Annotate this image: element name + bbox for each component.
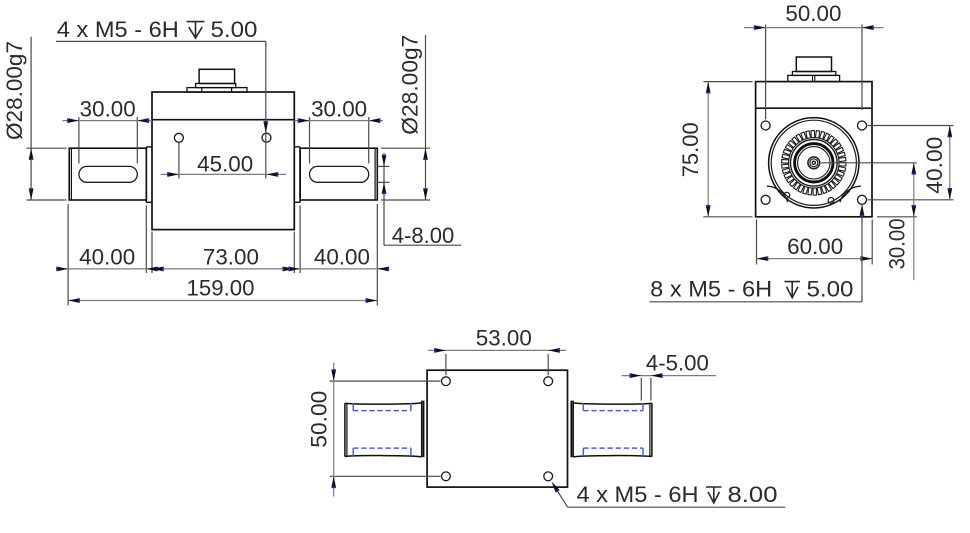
svg-text:73.00: 73.00 <box>203 244 259 269</box>
right dim note 8xM5-6H depth 5.00 <box>650 204 865 301</box>
front view: body top-plate parting line <box>152 119 294 121</box>
svg-text:8.00: 8.00 <box>728 482 778 507</box>
right view: connector mid flange <box>792 72 835 76</box>
bottom view: left shaft <box>345 403 422 457</box>
right view: body parting line <box>756 107 872 109</box>
front dim 30.00 right <box>294 97 383 164</box>
right view: inner ring 2 <box>798 147 830 179</box>
bottom view: right shaft collar <box>571 401 573 458</box>
bottom view: right keyway hidden lines <box>583 403 643 456</box>
right view: flange outer circle <box>769 118 859 208</box>
right view: serrated drive ring teeth <box>782 131 846 195</box>
bottom view: hole bottom-right <box>544 472 553 481</box>
bottom view: body <box>427 370 567 487</box>
front view: left keyway slot <box>79 166 137 182</box>
front dim 40.00 left / 73.00 / 40.00 right <box>56 204 389 306</box>
right view: corner hole bottom-right <box>858 195 867 204</box>
right view: flange hole lower-right <box>828 198 834 204</box>
svg-text:5.00: 5.00 <box>211 17 258 42</box>
bottom view: hole top-left <box>442 377 451 386</box>
svg-text:40.00: 40.00 <box>314 244 370 269</box>
bottom dim 50.00 <box>307 363 441 497</box>
front view: main body <box>152 92 294 230</box>
svg-text:5.00: 5.00 <box>807 277 854 302</box>
right view: clamp wing left <box>767 186 788 202</box>
svg-text:45.00: 45.00 <box>197 151 253 176</box>
bottom view: left shaft collar <box>422 401 424 458</box>
front dim dia 28.00g7 right <box>381 35 430 201</box>
svg-text:4-5.00: 4-5.00 <box>646 350 709 375</box>
right view: corner hole bottom-left <box>761 195 770 204</box>
svg-text:4 x M5 - 6H: 4 x M5 - 6H <box>57 17 179 42</box>
right view: connector plug housing <box>796 57 831 72</box>
front dim 4-8.00 keyway depth <box>377 153 461 248</box>
bottom view: left keyway hidden lines <box>353 403 411 456</box>
bottom dim note 4xM5-6H depth 8.00 <box>552 482 786 508</box>
right view: flange center line <box>821 162 917 164</box>
bottom view: right shaft <box>573 403 652 457</box>
svg-text:53.00: 53.00 <box>476 326 532 351</box>
front view: right keyway slot <box>310 166 369 182</box>
svg-text:159.00: 159.00 <box>187 276 255 301</box>
front view: connector base plate <box>187 88 247 93</box>
svg-text:Ø28.00g7: Ø28.00g7 <box>2 41 27 140</box>
front dim 159.00 <box>68 276 377 303</box>
front view: right shaft <box>300 148 377 200</box>
bottom dim 53.00 <box>428 326 566 376</box>
right view: center dot <box>812 161 815 164</box>
front view: left shaft <box>69 148 146 200</box>
right view: flange outer circle 2 <box>771 120 856 205</box>
right view: clamp wing right <box>840 186 861 202</box>
front dim note 4xM5-6H depth 5.00 <box>56 17 268 178</box>
svg-text:4 x M5 - 6H: 4 x M5 - 6H <box>577 482 699 507</box>
front view: tapped hole left <box>174 133 183 142</box>
front view: left collar <box>146 147 152 202</box>
right view: flange hole lower-left <box>784 192 790 198</box>
right view: inner ring 1 <box>791 140 838 187</box>
front view: connector mid flange <box>196 84 236 88</box>
right dim 30.00 <box>877 163 917 280</box>
svg-text:75.00: 75.00 <box>678 122 703 177</box>
svg-text:Ø28.00g7: Ø28.00g7 <box>398 35 423 135</box>
svg-text:50.00: 50.00 <box>785 1 841 26</box>
right dim 60.00 <box>757 220 873 265</box>
bottom view: hole bottom-left <box>442 472 451 481</box>
svg-text:40.00: 40.00 <box>922 137 947 194</box>
right view: center boss inner <box>810 159 818 167</box>
front dim dia 28.00g7 left <box>2 37 67 201</box>
right view: body <box>756 82 872 217</box>
right view: inner ring thick <box>795 144 833 182</box>
right view: corner hole top-left <box>761 121 770 130</box>
svg-text:8 x M5 - 6H: 8 x M5 - 6H <box>650 277 772 302</box>
svg-text:4-8.00: 4-8.00 <box>392 223 455 248</box>
right view: corner hole top-right <box>858 121 867 130</box>
front view: tapped hole right <box>262 133 271 142</box>
front view: connector plug housing <box>199 69 235 83</box>
front dim 45.00 <box>161 143 286 179</box>
svg-text:30.00: 30.00 <box>885 218 910 269</box>
right dim 50.00 <box>744 1 884 120</box>
bottom view: hole top-right <box>544 377 553 386</box>
right view: center boss outer <box>808 157 820 169</box>
svg-text:60.00: 60.00 <box>787 234 843 259</box>
right dim 75.00 <box>678 82 753 217</box>
svg-text:40.00: 40.00 <box>79 244 135 269</box>
svg-text:30.00: 30.00 <box>311 97 367 122</box>
right view: connector base plate <box>788 75 840 81</box>
front dim 30.00 left <box>63 97 153 164</box>
bottom dim 4-5.00 <box>622 350 716 400</box>
svg-text:30.00: 30.00 <box>80 97 136 122</box>
right dim 40.00 <box>868 126 954 200</box>
front view: right collar <box>294 147 300 202</box>
svg-text:50.00: 50.00 <box>307 391 332 448</box>
